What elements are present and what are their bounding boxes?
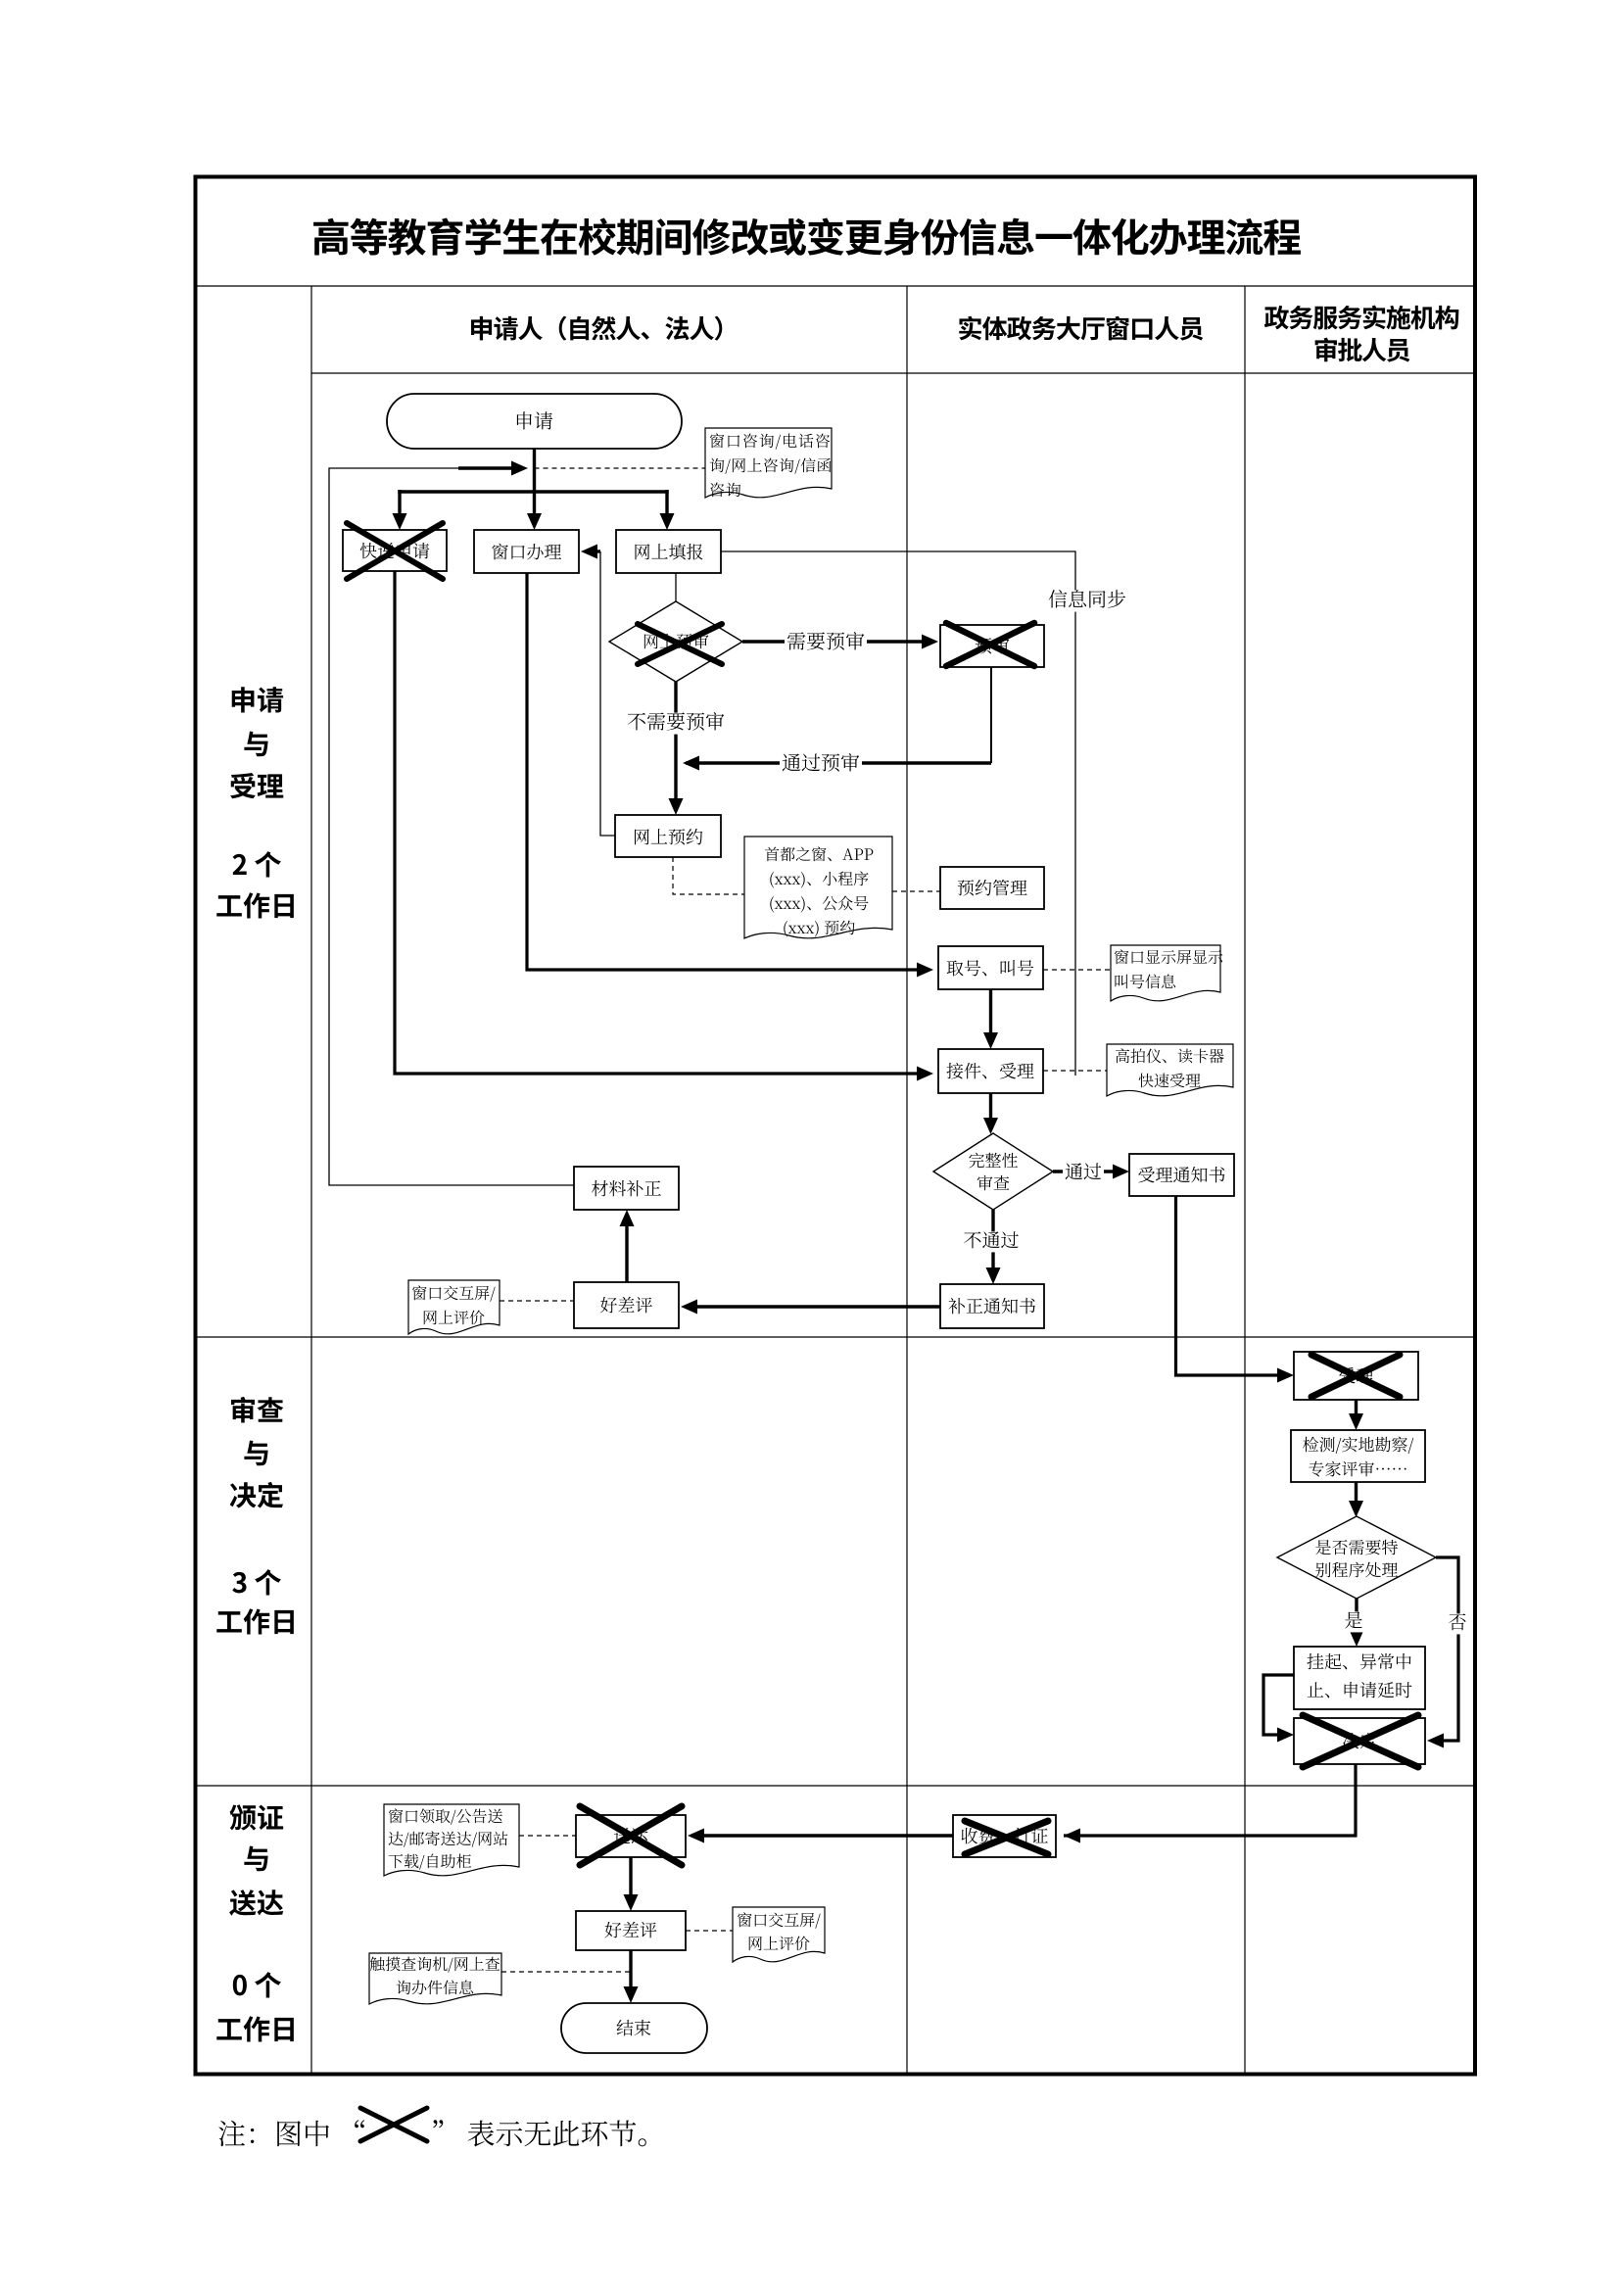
- process box: decision (crossed out): [1294, 1718, 1425, 1764]
- arrow: delivery down to rating (stage3): [629, 1857, 632, 1904]
- label: info sync: [1046, 591, 1128, 612]
- dashed link: apply to consult note: [535, 467, 706, 469]
- arrow: rating down to end: [629, 1950, 632, 1996]
- dashed link: online appointment to portal note: [673, 857, 744, 894]
- wire: apply down to window-handling with branch bar: [533, 449, 536, 523]
- cross over express apply: [347, 523, 443, 579]
- label: no pre-review needed: [625, 713, 727, 735]
- wire: no path right and down to decision box: [1433, 1557, 1458, 1741]
- process box: pre-review (crossed out): [940, 625, 1044, 667]
- arrow: branch down to express-apply: [398, 490, 401, 523]
- process box: correction notice: [940, 1284, 1044, 1328]
- note: window interactive screen / online rating (stage1): [408, 1280, 500, 1334]
- label: pass: [1063, 1163, 1104, 1183]
- title bottom divider: [194, 285, 1473, 287]
- dashed link: receive-accept to scanner note: [1043, 1070, 1107, 1072]
- process box: acceptance notice: [1129, 1154, 1234, 1196]
- stage row divider y=1823: [194, 1785, 1473, 1787]
- label: yes: [1343, 1611, 1365, 1632]
- wire: window-handling down to take-number: [527, 573, 926, 970]
- dashed link: rating note to rating box: [500, 1300, 574, 1302]
- stage3 label: 0 working days: [233, 1972, 281, 1997]
- stage2 label: 3 working days: [232, 1569, 281, 1595]
- legend note text left part: [218, 2120, 364, 2146]
- lane header: applicant: [471, 316, 722, 341]
- process box: inspection / site survey / expert review: [1291, 1430, 1425, 1482]
- note: touch inquiry machine / online case info: [369, 1953, 501, 2004]
- outer frame border: [196, 177, 1476, 2075]
- title text: [313, 217, 1301, 255]
- wire: acceptance notice down to lane3 acceptance: [1176, 1196, 1287, 1375]
- arrow: feedback joins apply line: [458, 466, 521, 469]
- arrow: pass to acceptance notice: [1053, 1170, 1121, 1172]
- stage row divider y=1365: [194, 1336, 1473, 1338]
- lane divider x=926: [906, 286, 908, 2073]
- process box: acceptance (crossed out): [1294, 1352, 1418, 1400]
- wire: feedback rail from material-correction to apply junction: [329, 468, 574, 1185]
- end node: finish (jieshu): [561, 2003, 707, 2053]
- dashed link: delivery note to delivery box: [519, 1835, 576, 1837]
- note: window display shows call info: [1111, 945, 1220, 1001]
- label: not pass: [962, 1231, 1022, 1252]
- note: window interactive screen / online rating (stage3): [733, 1907, 825, 1962]
- decision diamond: completeness review: [933, 1133, 1053, 1210]
- stage column divider x=318: [310, 286, 312, 2073]
- process box: window handling: [474, 530, 579, 573]
- note: capital-window APP mini-program appointment: [744, 837, 892, 938]
- process box: receive and accept: [938, 1049, 1043, 1093]
- header bottom divider y=381: [311, 372, 1473, 374]
- decision diamond: need special procedure?: [1277, 1516, 1436, 1599]
- note: high-speed scanner card-reader quick acceptance: [1107, 1044, 1233, 1096]
- lane header: implementing agency approvers line1: [1264, 306, 1458, 330]
- cross over online pre-review: [638, 624, 722, 664]
- arrow: fee-certificate to delivery: [695, 1834, 953, 1837]
- label: need pre-review: [785, 633, 867, 654]
- decision diamond: online pre-review (crossed out): [609, 601, 742, 682]
- process box: delivery (crossed out): [576, 1815, 686, 1857]
- stage1 label: 2 working days: [233, 851, 281, 877]
- lane header: implementing agency approvers line2: [1315, 338, 1410, 362]
- process box: online appointment: [615, 815, 721, 857]
- arrow: receive-accept down to completeness check: [989, 1093, 992, 1127]
- arrow: correction notice to rating: [689, 1305, 940, 1308]
- wire: online-fill down to pre-review diamond: [675, 573, 677, 601]
- arrow: into window-handling right edge: [586, 550, 600, 552]
- stage3 label: certificate issue and delivery: [230, 1804, 284, 1830]
- wire: branch bar y=502: [398, 490, 668, 493]
- arrow: rating up to material correction: [625, 1217, 628, 1282]
- process box: good-bad rating (stage3): [576, 1911, 686, 1950]
- process box: take number / call number: [938, 946, 1043, 989]
- dashed link: rating box to rating note (stage3): [686, 1930, 733, 1932]
- arrow: take-number down to receive-accept: [989, 989, 992, 1042]
- start node: apply (shenqing): [387, 394, 682, 449]
- wire: online-appointment rail back to window-handling: [600, 551, 615, 836]
- wire: express-apply down to receive-accept: [395, 571, 926, 1074]
- legend note text right part: [433, 2120, 646, 2146]
- arrow: need pre-review to pre-review box: [742, 640, 930, 643]
- arrow: branch down to online-fill: [665, 490, 668, 523]
- process box: appointment management: [940, 867, 1044, 909]
- wire: diamond down to online appointment: [674, 682, 677, 808]
- label: no: [1447, 1613, 1469, 1634]
- cross over decision: [1303, 1715, 1418, 1767]
- process box: suspend / abnormal stop / apply delay: [1294, 1647, 1425, 1709]
- dashed link: take-number to display note: [1043, 969, 1111, 971]
- label: passed pre-review: [780, 754, 862, 776]
- cross over acceptance: [1311, 1355, 1400, 1397]
- wire: suspend left loop down to decision box: [1263, 1675, 1294, 1735]
- stage2 label: review and decision: [231, 1397, 283, 1423]
- wire: pre-review down and left (passed pre-review): [990, 667, 992, 763]
- note: window/phone/online/letter consulting: [705, 428, 832, 498]
- wire: decision down and left to fee-certificate: [1064, 1764, 1356, 1836]
- dashed link: portal note to appointment management: [892, 890, 940, 892]
- legend cross symbol: [360, 2108, 427, 2141]
- process box: fee and certificate printing (crossed out): [953, 1815, 1056, 1857]
- arrow: yes down to suspend box: [1355, 1599, 1358, 1640]
- arrow: acceptance down to inspection: [1355, 1400, 1358, 1423]
- cross over delivery: [580, 1806, 682, 1865]
- process box: good-bad rating (stage1): [574, 1282, 679, 1328]
- note: window pickup / announcement / mail / website / self-service: [384, 1804, 519, 1876]
- lane header: service-hall window staff: [959, 316, 1203, 341]
- lane divider x=1271: [1244, 286, 1246, 2073]
- process box: online filling: [616, 530, 721, 573]
- process box: express apply (crossed out): [343, 530, 447, 571]
- dashed link: inquiry note to end wire: [501, 1971, 631, 1973]
- cross over fee-certificate: [965, 1821, 1048, 1854]
- process box: material correction: [574, 1167, 679, 1210]
- arrow: fail down to correction notice: [991, 1210, 994, 1277]
- cross over pre-review box: [946, 623, 1034, 666]
- wire: online-fill to info-sync rail: [721, 551, 1075, 1076]
- arrow: inspection down to special-procedure decision: [1355, 1482, 1358, 1510]
- stage1 label: application and acceptance: [232, 687, 283, 712]
